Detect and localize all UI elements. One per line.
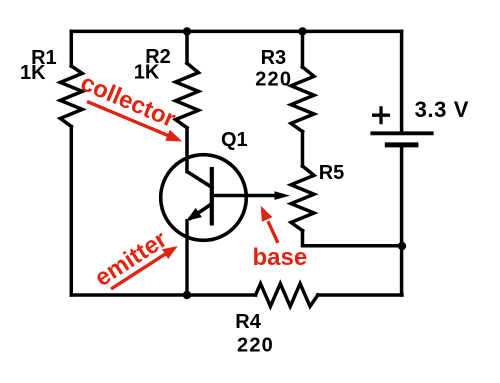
node junction dot top R3 <box>298 27 306 35</box>
wire battery top lead <box>400 31 404 131</box>
wire left rail upper <box>70 31 74 66</box>
wire bottom rail left <box>71 293 255 297</box>
svg-text:R3: R3 <box>261 47 287 69</box>
svg-text:220: 220 <box>255 69 292 91</box>
svg-text:base: base <box>253 244 308 271</box>
resistor R2 <box>176 63 199 128</box>
transistor Q1 emitter arrowhead <box>186 208 202 221</box>
svg-text:collector: collector <box>77 69 180 133</box>
svg-text:Q1: Q1 <box>221 129 248 151</box>
wire top rail <box>71 30 401 34</box>
wire battery bottom lead <box>400 147 404 295</box>
wire R5 bottom lead <box>303 231 403 246</box>
battery plus sign <box>372 106 390 124</box>
transistor Q1 body circle <box>161 155 247 241</box>
annotation base arrow <box>261 206 278 243</box>
transistor Q1 emitter diagonal <box>189 204 212 219</box>
transistor Q1 collector diagonal <box>187 172 212 188</box>
svg-text:220: 220 <box>237 334 274 356</box>
resistor R3 <box>291 67 314 132</box>
svg-text:1K: 1K <box>20 62 46 84</box>
wire base lead <box>212 194 277 197</box>
potentiometer R5 <box>291 166 314 231</box>
svg-text:3.3 V: 3.3 V <box>415 97 469 122</box>
wiper arrowhead of R5 <box>275 191 291 200</box>
wire R3 to R5 <box>301 132 305 166</box>
wire emitter lead <box>185 219 188 295</box>
svg-text:R5: R5 <box>319 162 345 184</box>
battery BT1 plate positive <box>370 131 433 135</box>
resistor R4 <box>256 284 318 307</box>
battery BT1 plate negative <box>385 142 419 147</box>
resistor R1 <box>60 66 82 127</box>
node junction dot bottom emitter <box>183 291 191 299</box>
node junction dot right battery <box>398 242 406 250</box>
wire bottom rail right <box>318 293 402 297</box>
node junction dot top R2 <box>183 27 191 35</box>
wire collector lead <box>185 128 189 172</box>
wire left rail lower <box>70 127 74 296</box>
svg-text:R4: R4 <box>235 311 261 333</box>
svg-text:1K: 1K <box>134 62 160 84</box>
wire R3 branch top <box>301 31 305 67</box>
annotation collector arrow <box>87 102 182 142</box>
annotation emitter arrow <box>111 246 178 289</box>
transistor Q1 base bar <box>210 167 214 226</box>
wire R2 branch top <box>185 31 189 63</box>
